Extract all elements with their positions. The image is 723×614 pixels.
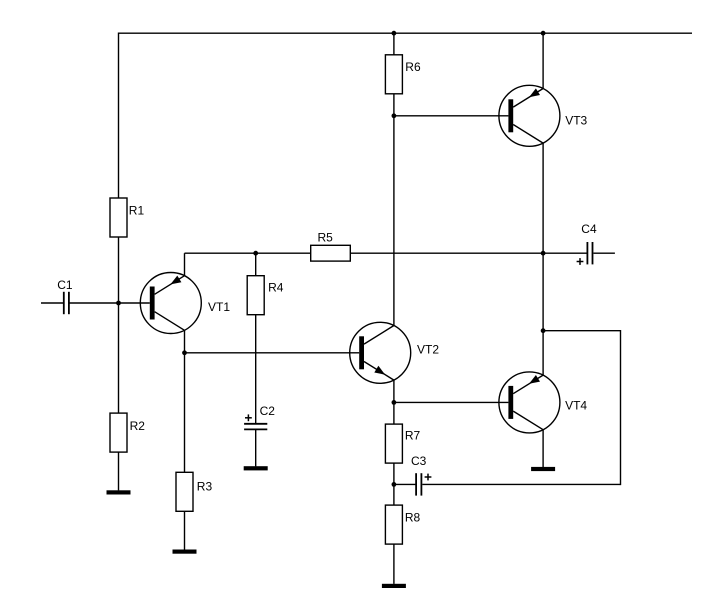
- svg-text:R3: R3: [197, 479, 213, 493]
- node top rail / VT3: [541, 31, 546, 36]
- wire feedback riser: [620, 330, 622, 485]
- svg-text:C1: C1: [57, 278, 73, 292]
- wire VT1 emitter up to feedback line: [184, 253, 186, 276]
- wire node D to VT4 base: [394, 401, 509, 403]
- wire node A to VT1 base: [119, 302, 150, 304]
- wire R5 to VT3 emitter line: [350, 252, 543, 254]
- wire rail to R6: [393, 33, 395, 55]
- wire C3 to feedback riser: [422, 483, 620, 485]
- ground below R8: [382, 584, 406, 588]
- svg-text:VT1: VT1: [208, 300, 230, 314]
- svg-text:C4: C4: [581, 222, 597, 236]
- resistor R7: [385, 424, 402, 463]
- node A junction (C1/R1/R2/VT1 base): [116, 301, 121, 306]
- svg-text:VT3: VT3: [565, 113, 587, 127]
- wire R3 to ground: [184, 511, 186, 549]
- wire feedback horizontal: [543, 330, 620, 332]
- svg-text:R1: R1: [129, 204, 145, 218]
- svg-text:C2: C2: [260, 404, 276, 418]
- wire R8 to ground: [393, 544, 395, 584]
- wire node D down to R7: [393, 402, 395, 424]
- wire node B down to R3: [184, 353, 186, 473]
- svg-text:C3: C3: [411, 454, 427, 468]
- svg-text:R7: R7: [405, 429, 421, 443]
- node C junction (R6/VT3 base/VT2 collector): [392, 113, 397, 118]
- svg-text:R5: R5: [318, 230, 334, 244]
- wire node F to VT4 collector: [542, 331, 544, 375]
- capacitor C1: [64, 292, 69, 314]
- capacitor C3: [416, 473, 431, 495]
- wire R6 to node C: [393, 94, 395, 116]
- wire node C to VT3 base: [394, 115, 509, 117]
- wire R1 bottom to node A: [118, 237, 120, 303]
- svg-text:VT2: VT2: [417, 343, 439, 357]
- ground below R2: [107, 490, 131, 494]
- resistor R8: [385, 505, 402, 544]
- wire node to R5: [256, 252, 311, 254]
- wire VT4 emitter to ground: [542, 430, 544, 467]
- transistor VT4: [499, 372, 560, 433]
- wire C2 to ground: [255, 429, 257, 466]
- wire node to C4: [543, 252, 587, 254]
- wire node A down to R2: [118, 303, 120, 413]
- node D junction (VT2 emitter/R7/VT4 base): [392, 400, 397, 405]
- svg-text:R4: R4: [268, 280, 284, 294]
- resistor R1: [110, 198, 127, 237]
- node E junction (R7/R8/C3): [392, 482, 397, 487]
- node VT3 emitter junction: [541, 251, 546, 256]
- wire node E down to R8: [393, 484, 395, 505]
- svg-text:R2: R2: [130, 419, 146, 433]
- node R4 top junction: [253, 251, 258, 256]
- resistor R4: [247, 276, 264, 315]
- transistor VT2: [350, 322, 411, 383]
- wire VT3 collector down: [542, 143, 544, 253]
- wire node C down to VT2 collector: [393, 116, 395, 326]
- resistor R5: [311, 245, 351, 261]
- wire R7 to node E: [393, 463, 395, 484]
- wire VT1 collector down to node B: [184, 330, 186, 353]
- wire node B to VT2 base: [185, 352, 360, 354]
- node top rail / R6: [392, 31, 397, 36]
- wire rail down to VT3: [542, 33, 544, 88]
- wire R2 to ground: [118, 452, 120, 490]
- transistor VT3: [499, 85, 560, 146]
- node B junction (VT1 collector/R3/VT2 base): [182, 350, 187, 355]
- wire top supply rail: [119, 32, 693, 34]
- svg-text:R6: R6: [405, 60, 421, 74]
- resistor R3: [176, 472, 193, 511]
- wire VT2 emitter to node D: [393, 380, 395, 402]
- svg-text:R8: R8: [405, 510, 421, 524]
- transistor VT1: [140, 273, 201, 334]
- wire left rail drop to R1: [118, 33, 120, 199]
- ground below VT4: [531, 467, 555, 471]
- ground below R3: [173, 550, 197, 554]
- ground below C2: [244, 466, 268, 470]
- capacitor C2: [244, 414, 267, 429]
- wire R4 bottom to C2: [255, 315, 257, 424]
- wire emitter line to R4 node: [185, 252, 256, 254]
- wire node down to R4: [255, 253, 257, 276]
- wire node E to C3: [394, 483, 416, 485]
- wire down to feedback node: [542, 253, 544, 331]
- wire C1 input stub: [41, 302, 64, 304]
- node F feedback tap: [541, 328, 546, 333]
- svg-text:VT4: VT4: [565, 398, 587, 412]
- resistor R2: [110, 413, 127, 452]
- capacitor C4: [577, 242, 593, 265]
- resistor R6: [385, 55, 402, 94]
- wire C1 to node A: [69, 302, 119, 304]
- wire C4 output stub: [594, 252, 615, 254]
